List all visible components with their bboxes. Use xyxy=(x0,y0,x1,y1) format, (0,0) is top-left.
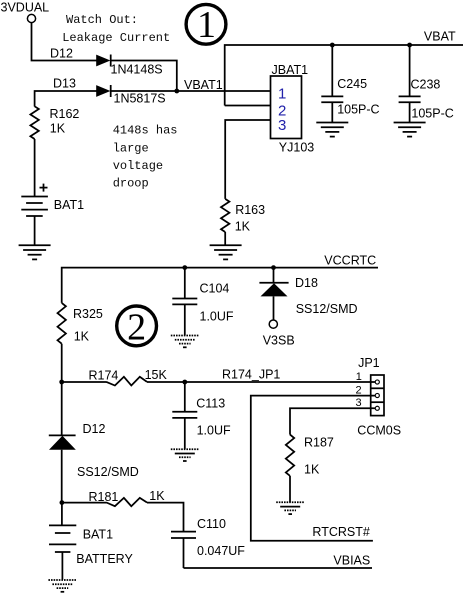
svg-text:1: 1 xyxy=(278,85,286,102)
svg-text:R163: R163 xyxy=(235,203,265,217)
svg-text:1K: 1K xyxy=(50,122,66,136)
wire VCCRTC xyxy=(62,268,378,303)
callout circle 1 xyxy=(186,4,226,46)
svg-text:4148s has: 4148s has xyxy=(113,124,178,138)
svg-text:VCCRTC: VCCRTC xyxy=(324,254,376,268)
ground xyxy=(48,580,76,592)
svg-text:BATTERY: BATTERY xyxy=(76,552,133,566)
svg-text:large: large xyxy=(113,141,149,155)
connector JP1 xyxy=(371,375,384,416)
diode D12 xyxy=(96,55,111,67)
svg-text:C245: C245 xyxy=(337,77,367,91)
svg-text:1.0UF: 1.0UF xyxy=(197,424,231,438)
svg-text:105P-C: 105P-C xyxy=(337,103,379,117)
svg-text:1K: 1K xyxy=(235,219,251,233)
resistor R163 xyxy=(221,199,229,232)
svg-text:R325: R325 xyxy=(73,307,103,321)
diode D13 xyxy=(96,85,111,97)
connector JBAT1 xyxy=(271,76,302,139)
svg-text:VBAT1: VBAT1 xyxy=(184,78,223,92)
capacitor C113 xyxy=(172,382,197,449)
capacitor C110 xyxy=(171,532,196,568)
wire xyxy=(34,139,36,197)
svg-text:BAT1: BAT1 xyxy=(54,198,84,212)
svg-text:C110: C110 xyxy=(197,517,226,531)
junction xyxy=(271,265,276,270)
svg-text:1K: 1K xyxy=(74,330,90,344)
svg-text:SS12/SMD: SS12/SMD xyxy=(77,465,139,479)
wire xyxy=(61,344,63,382)
svg-text:D13: D13 xyxy=(53,77,76,91)
svg-text:BAT1: BAT1 xyxy=(83,528,113,542)
resistor R162 xyxy=(30,106,38,139)
svg-text:droop: droop xyxy=(113,177,149,191)
wire VBIAS xyxy=(184,567,373,569)
node V3SB terminal xyxy=(269,320,277,328)
svg-text:2: 2 xyxy=(356,384,362,396)
svg-text:R174: R174 xyxy=(89,369,119,383)
resistor R187 xyxy=(286,435,294,476)
junction xyxy=(182,380,187,385)
ground xyxy=(171,449,199,461)
resistor R325 xyxy=(58,303,66,344)
ground xyxy=(19,245,51,259)
svg-text:1K: 1K xyxy=(304,462,320,476)
diode D18 xyxy=(259,268,288,320)
svg-text:voltage: voltage xyxy=(113,159,163,173)
wire pin2 xyxy=(225,105,270,107)
svg-text:Watch Out:: Watch Out: xyxy=(66,13,138,27)
callout circle 2 xyxy=(117,306,157,348)
svg-text:VBIAS: VBIAS xyxy=(333,554,370,568)
wire pin3 net xyxy=(290,408,375,434)
wire xyxy=(224,232,226,245)
svg-text:R174_JP1: R174_JP1 xyxy=(222,368,280,382)
battery BAT1 xyxy=(21,197,48,217)
wire xyxy=(225,45,463,106)
wire xyxy=(34,216,36,245)
junction xyxy=(174,89,179,94)
svg-text:R181: R181 xyxy=(89,490,119,504)
resistor R181 xyxy=(106,498,147,506)
svg-text:SS12/SMD: SS12/SMD xyxy=(296,302,358,316)
svg-text:1: 1 xyxy=(197,4,216,46)
svg-text:JBAT1: JBAT1 xyxy=(272,63,309,77)
svg-text:105P-C: 105P-C xyxy=(411,107,453,121)
svg-text:Leakage Current: Leakage Current xyxy=(62,31,170,45)
resistor R174 xyxy=(106,377,147,386)
svg-text:0.047UF: 0.047UF xyxy=(197,544,245,558)
node 3VDUAL terminal xyxy=(27,14,35,22)
junction xyxy=(60,500,65,505)
ground xyxy=(316,123,348,137)
wire VBAT1 xyxy=(111,90,270,92)
svg-text:D18: D18 xyxy=(295,276,318,290)
wire xyxy=(35,91,97,107)
wire R174 row xyxy=(62,381,107,383)
capacitor C245 xyxy=(321,45,343,122)
svg-text:R187: R187 xyxy=(304,436,334,450)
note text xyxy=(62,13,177,191)
svg-text:1N5817S: 1N5817S xyxy=(114,92,166,106)
wire xyxy=(32,23,97,61)
svg-text:3VDUAL: 3VDUAL xyxy=(1,1,50,15)
svg-text:C104: C104 xyxy=(200,282,230,296)
svg-text:C113: C113 xyxy=(196,397,225,411)
junction xyxy=(407,43,412,48)
svg-text:JP1: JP1 xyxy=(358,356,380,370)
wire pin3 xyxy=(225,120,270,199)
battery BAT1 lower xyxy=(49,503,76,580)
svg-text:1K: 1K xyxy=(149,489,165,503)
svg-text:R162: R162 xyxy=(50,107,80,121)
ground xyxy=(171,336,199,348)
svg-text:VBAT: VBAT xyxy=(424,29,456,43)
junction xyxy=(182,265,187,270)
svg-text:3: 3 xyxy=(278,117,286,134)
ground xyxy=(276,502,304,514)
wire xyxy=(147,381,375,383)
svg-text:C238: C238 xyxy=(411,78,441,92)
svg-text:D12: D12 xyxy=(50,46,73,60)
svg-text:CCM0S: CCM0S xyxy=(357,423,401,437)
svg-text:YJ103: YJ103 xyxy=(279,140,314,154)
svg-text:2: 2 xyxy=(127,306,146,348)
junction xyxy=(330,43,335,48)
wire xyxy=(111,61,177,92)
ground xyxy=(394,123,426,137)
svg-text:15K: 15K xyxy=(145,368,168,382)
svg-text:1N4148S: 1N4148S xyxy=(111,63,163,77)
junction xyxy=(59,380,64,385)
wire R181 row xyxy=(62,502,107,504)
wire xyxy=(289,476,291,502)
svg-text:RTCRST#: RTCRST# xyxy=(312,525,369,539)
svg-text:D12: D12 xyxy=(83,422,106,436)
wire pin2 net xyxy=(251,396,375,541)
capacitor C238 xyxy=(399,45,421,122)
diode D12 lower xyxy=(49,382,76,503)
svg-text:1: 1 xyxy=(356,371,362,383)
capacitor C104 xyxy=(172,268,197,336)
svg-text:V3SB: V3SB xyxy=(263,334,295,348)
ground xyxy=(210,245,242,259)
plus sign xyxy=(40,184,48,192)
svg-text:1.0UF: 1.0UF xyxy=(200,310,234,324)
wire xyxy=(147,503,184,532)
